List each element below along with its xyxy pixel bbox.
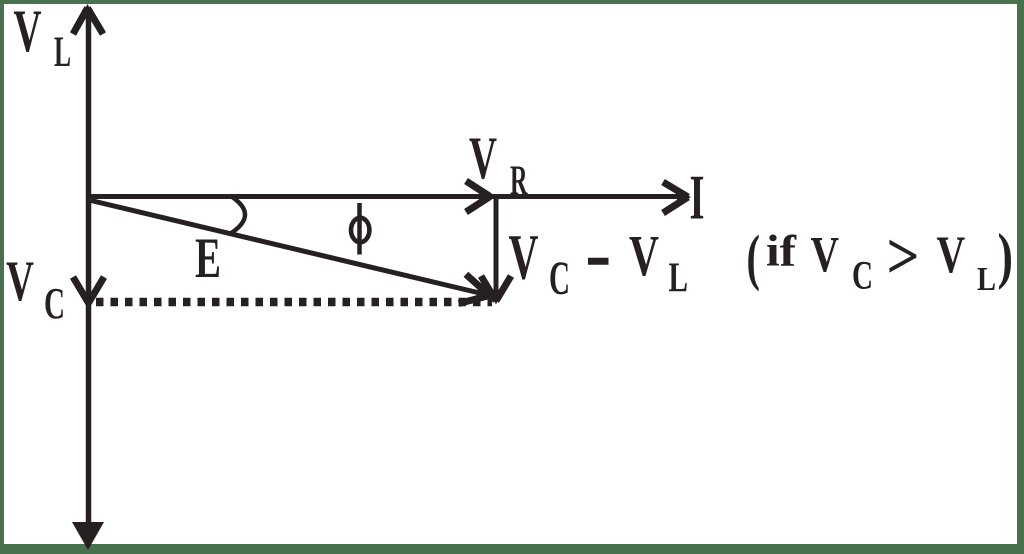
wire vertical axis bbox=[86, 10, 92, 540]
svg-text:V: V bbox=[14, 0, 42, 64]
svg-text:C: C bbox=[852, 253, 873, 298]
svg-text:L: L bbox=[977, 261, 996, 298]
svg-text:V: V bbox=[469, 125, 497, 191]
arrowhead I bbox=[663, 182, 691, 213]
svg-text:I: I bbox=[690, 162, 705, 233]
svg-text:>: > bbox=[887, 220, 920, 293]
svg-text:V: V bbox=[509, 222, 539, 293]
label if V_C greater V_L bbox=[747, 220, 1014, 298]
svg-text:V: V bbox=[6, 250, 34, 313]
arrowhead V_C minus V_L tip bbox=[481, 276, 511, 305]
label V_C minus V_L bbox=[509, 222, 689, 305]
green frame top bbox=[0, 0, 1024, 4]
wire V_C minus V_L phasor vertical bbox=[494, 199, 499, 300]
wire horizontal axis I bbox=[90, 194, 684, 199]
arrowhead axis bottom bbox=[72, 522, 104, 550]
svg-text:R: R bbox=[510, 159, 528, 205]
svg-text:V: V bbox=[629, 223, 659, 288]
svg-text:L: L bbox=[669, 255, 689, 302]
svg-text:E: E bbox=[195, 227, 221, 290]
phi symbol stem bbox=[357, 203, 362, 255]
label V_L bbox=[14, 0, 72, 76]
green frame right bbox=[1017, 0, 1024, 554]
arrowhead V_R tip bbox=[466, 181, 493, 212]
phi symbol ellipse bbox=[351, 218, 369, 242]
svg-text:): ) bbox=[998, 223, 1014, 291]
svg-text:V: V bbox=[937, 226, 966, 284]
arrowhead V_L axis top bbox=[73, 4, 103, 34]
svg-text:V: V bbox=[811, 227, 840, 283]
minus sign in V_C - V_L bbox=[588, 258, 609, 265]
wire dotted projection line bbox=[96, 298, 492, 307]
svg-text:C: C bbox=[44, 278, 65, 328]
wire E phasor diagonal bbox=[91, 201, 488, 296]
svg-text:L: L bbox=[54, 29, 71, 76]
label V_R bbox=[469, 125, 528, 205]
svg-text:if: if bbox=[766, 227, 797, 276]
arrowhead E tip bbox=[459, 274, 493, 303]
svg-text:(: ( bbox=[747, 224, 761, 292]
green frame left bbox=[0, 0, 4, 554]
angle arc phi bbox=[231, 197, 246, 234]
green frame bottom bbox=[0, 544, 1024, 554]
arrowhead V_C axis tip bbox=[73, 277, 104, 307]
svg-text:C: C bbox=[549, 252, 570, 305]
label V_C left bbox=[6, 250, 65, 328]
